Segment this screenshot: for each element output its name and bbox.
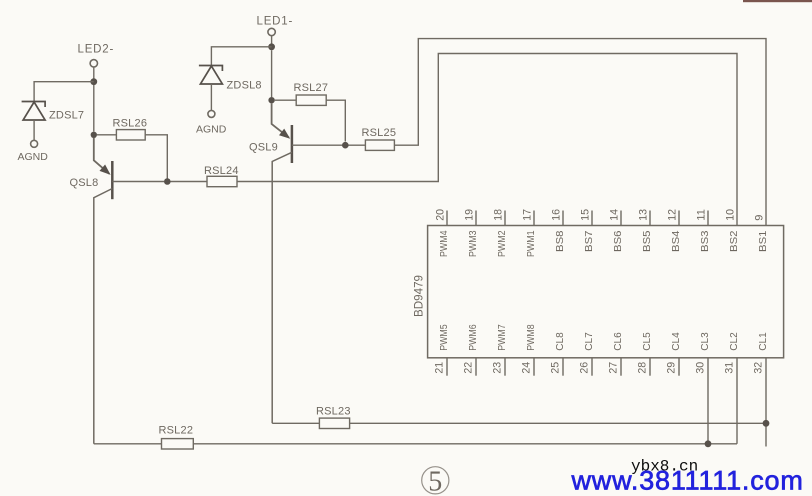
resistor RSL23 <box>319 418 349 428</box>
svg-text:5: 5 <box>428 466 442 496</box>
transistor QSL8 bar <box>111 161 114 199</box>
svg-text:PWM4: PWM4 <box>438 230 450 257</box>
wire junction to ZDSL7 <box>34 82 94 102</box>
transistor QSL8 emitter arrow <box>100 165 111 175</box>
svg-text:PWM3: PWM3 <box>467 230 479 257</box>
wire RSL27 to base junction <box>326 100 345 141</box>
transistor QSL9 emitter arrow <box>279 129 290 139</box>
transistor QSL8 collector wire <box>94 189 113 444</box>
junction QSL8 base / RSL26 / RSL24 <box>164 178 171 185</box>
svg-text:www.3811111.com: www.3811111.com <box>571 466 804 496</box>
wire LED1- junction to RSL27 junction <box>271 50 273 97</box>
wire junction to RSL27 <box>275 99 296 101</box>
pin 30 CL3 <box>695 332 711 444</box>
svg-text:PWM2: PWM2 <box>496 230 508 257</box>
pin 18 PWM2 <box>493 209 509 257</box>
pin 14 BS6 <box>609 209 625 252</box>
svg-text:14: 14 <box>609 209 621 221</box>
svg-text:BS1: BS1 <box>757 230 769 252</box>
wire RSL23 to IC pin 32 <box>350 422 766 424</box>
svg-text:CL3: CL3 <box>699 332 711 351</box>
svg-text:12: 12 <box>667 209 679 221</box>
svg-text:21: 21 <box>434 362 446 374</box>
pin 15 BS7 <box>580 209 596 252</box>
svg-text:BS4: BS4 <box>670 230 682 252</box>
svg-text:20: 20 <box>435 209 447 221</box>
svg-text:CL5: CL5 <box>641 332 653 351</box>
transistor QSL8 base wire <box>112 181 164 183</box>
svg-text:BS6: BS6 <box>612 230 624 252</box>
resistor RSL22 <box>162 439 194 449</box>
svg-text:RSL23: RSL23 <box>316 406 351 418</box>
pin 16 BS8 <box>551 209 567 252</box>
svg-text:30: 30 <box>695 362 707 374</box>
pin 22 PWM6 <box>463 324 479 376</box>
svg-text:CL7: CL7 <box>583 332 595 351</box>
transistor QSL9 bar <box>291 125 294 163</box>
wire base junction to RSL25 <box>349 144 366 146</box>
svg-text:26: 26 <box>579 362 591 374</box>
svg-text:BS8: BS8 <box>554 230 566 252</box>
svg-text:PWM6: PWM6 <box>467 324 479 351</box>
wire RSL26 to base junction <box>145 135 167 179</box>
wire RSL25 to IC pin 9 <box>394 39 766 226</box>
svg-text:QSL9: QSL9 <box>249 142 278 154</box>
zener ZDSL7 <box>22 102 45 121</box>
svg-text:18: 18 <box>493 209 505 221</box>
transistor QSL9 collector wire <box>272 152 292 423</box>
svg-text:BS5: BS5 <box>641 230 653 252</box>
svg-text:22: 22 <box>463 362 475 374</box>
wire junction to ZDSL8 <box>211 47 271 66</box>
svg-text:BS7: BS7 <box>583 230 595 252</box>
svg-text:25: 25 <box>550 362 562 374</box>
terminal LED2- <box>90 60 97 67</box>
svg-text:CL1: CL1 <box>757 332 769 351</box>
pin 20 PWM4 <box>435 209 451 257</box>
svg-text:CL6: CL6 <box>612 332 624 351</box>
svg-text:23: 23 <box>492 362 504 374</box>
pin 21 PWM5 <box>434 324 450 376</box>
svg-text:BS2: BS2 <box>728 230 740 252</box>
pin 12 BS4 <box>667 209 683 252</box>
junction LED1-/ZDSL8 <box>268 43 275 50</box>
svg-text:LED2-: LED2- <box>78 44 115 56</box>
svg-text:RSL24: RSL24 <box>204 165 239 177</box>
svg-text:31: 31 <box>724 362 736 374</box>
svg-text:17: 17 <box>522 209 534 221</box>
pin 19 PWM3 <box>464 209 480 257</box>
terminal LED1- <box>268 28 275 35</box>
svg-text:9: 9 <box>754 215 766 221</box>
pin 28 CL5 <box>637 332 653 376</box>
svg-text:10: 10 <box>725 209 737 221</box>
svg-text:16: 16 <box>551 209 563 221</box>
svg-text:27: 27 <box>608 362 620 374</box>
svg-text:CL4: CL4 <box>670 332 682 351</box>
svg-text:ZDSL8: ZDSL8 <box>227 80 262 92</box>
svg-text:PWM5: PWM5 <box>438 324 450 351</box>
wire QSL9 collector to RSL23 <box>272 422 319 424</box>
resistor RSL27 <box>296 95 326 105</box>
pin 17 PWM1 <box>522 209 538 257</box>
wire QSL8 collector to RSL22 <box>94 443 162 445</box>
pin 10 BS2 <box>725 209 741 252</box>
svg-text:PWM7: PWM7 <box>496 324 508 351</box>
svg-text:QSL8: QSL8 <box>70 177 99 189</box>
pin 24 PWM8 <box>521 324 537 376</box>
svg-text:AGND: AGND <box>196 124 227 136</box>
junction QSL9 base / RSL27 / RSL25 <box>342 142 349 149</box>
terminal AGND (left) <box>31 140 38 147</box>
wire RSL24 to IC pin 10 <box>237 54 737 226</box>
pin 25 CL8 <box>550 332 566 376</box>
wire junction to RSL26 <box>97 134 116 136</box>
junction RSL22 / pin 30 <box>705 440 712 447</box>
svg-text:RSL27: RSL27 <box>294 82 329 94</box>
wire LED2- terminal to junction <box>93 67 95 79</box>
pin 11 BS3 <box>696 209 712 252</box>
pin 32 CL1 <box>753 332 769 446</box>
wire base junction to RSL24 <box>171 181 208 183</box>
svg-text:AGND: AGND <box>18 151 49 163</box>
svg-text:29: 29 <box>666 362 678 374</box>
pin 27 CL6 <box>608 332 624 376</box>
svg-text:LED1-: LED1- <box>257 16 294 28</box>
pin 29 CL4 <box>666 332 682 376</box>
pin 31 CL2 <box>724 332 740 444</box>
transistor QSL9 base wire <box>292 144 342 146</box>
resistor RSL26 <box>116 130 145 140</box>
svg-text:ZDSL7: ZDSL7 <box>49 110 84 122</box>
junction RSL23 / pin 32 <box>763 420 770 427</box>
pin 13 BS5 <box>638 209 654 252</box>
terminal AGND (middle) <box>208 110 215 117</box>
svg-text:19: 19 <box>464 209 476 221</box>
svg-text:CL2: CL2 <box>728 332 740 351</box>
svg-text:CL8: CL8 <box>554 332 566 351</box>
svg-text:11: 11 <box>696 209 708 221</box>
svg-text:24: 24 <box>521 362 533 374</box>
wire ZDSL8 to AGND terminal <box>210 84 212 110</box>
svg-text:RSL26: RSL26 <box>113 117 148 129</box>
transistor Q2 QSL9 emitter wire <box>272 103 289 137</box>
pin 26 CL7 <box>579 332 595 376</box>
resistor RSL24 <box>207 176 237 186</box>
wire ZDSL7 to AGND terminal <box>33 120 35 140</box>
svg-text:13: 13 <box>638 209 650 221</box>
pin 23 PWM7 <box>492 324 508 376</box>
svg-text:RSL25: RSL25 <box>362 127 397 139</box>
svg-text:28: 28 <box>637 362 649 374</box>
svg-text:BD9479: BD9479 <box>414 275 426 317</box>
svg-text:32: 32 <box>753 362 765 374</box>
svg-text:RSL22: RSL22 <box>159 424 194 436</box>
zener ZDSL8 <box>199 66 223 85</box>
junction RSL26/QSL8 emitter <box>91 132 97 138</box>
op-amp U1 BD9479 body <box>428 226 784 358</box>
transistor Q1 QSL8 emitter wire <box>94 138 110 174</box>
wire RSL22 to IC pin 31 <box>193 443 737 445</box>
svg-text:15: 15 <box>580 209 592 221</box>
svg-text:PWM1: PWM1 <box>525 230 537 257</box>
svg-text:BS3: BS3 <box>699 230 711 252</box>
figure number 5 <box>422 466 449 496</box>
junction LED2-/ZDSL7 <box>90 78 97 85</box>
junction RSL27/QSL9 emitter <box>268 97 274 103</box>
svg-text:PWM8: PWM8 <box>525 324 537 351</box>
wire LED1- terminal to junction <box>271 36 273 44</box>
pin 9 BS1 <box>754 215 770 252</box>
resistor RSL25 <box>365 140 394 150</box>
wire LED2- junction to RSL26 junction <box>93 85 95 132</box>
